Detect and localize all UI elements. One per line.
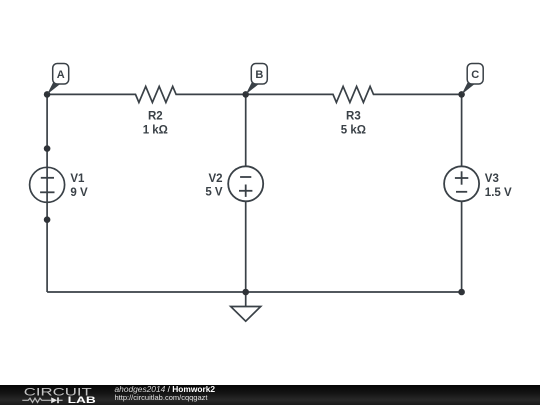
svg-text:A: A: [57, 69, 65, 81]
svg-text:1 kΩ: 1 kΩ: [143, 124, 168, 136]
svg-text:1.5 V: 1.5 V: [485, 187, 512, 199]
svg-text:LAB: LAB: [68, 396, 96, 405]
svg-text:5 kΩ: 5 kΩ: [341, 124, 366, 136]
svg-text:V2: V2: [209, 173, 223, 185]
svg-text:5 V: 5 V: [205, 186, 223, 198]
svg-text:V3: V3: [485, 173, 499, 185]
svg-text:B: B: [255, 69, 263, 81]
svg-text:9 V: 9 V: [70, 187, 88, 199]
svg-text:R2: R2: [148, 110, 163, 122]
svg-text:C: C: [471, 69, 479, 81]
svg-text:R3: R3: [346, 110, 361, 122]
svg-text:V1: V1: [70, 173, 85, 185]
